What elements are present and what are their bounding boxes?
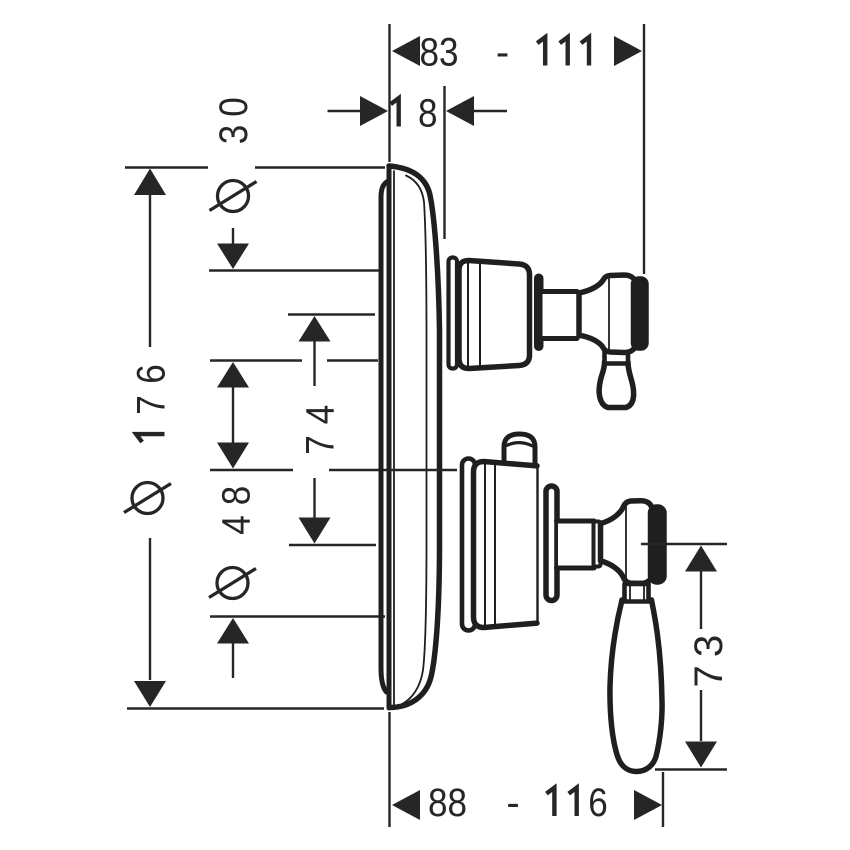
lower valve: skirt ring: [462, 459, 475, 631]
extension line V1 (wall/plate face, x=389.5) top: [388, 24, 390, 162]
upper valve: neck/hub interface line: [577, 293, 581, 337]
arrow O176 up: [134, 169, 166, 196]
arrow 83-111 left: [392, 36, 420, 66]
arrow O30 down at L2: [217, 244, 249, 270]
dim 73 lower tail: [700, 690, 702, 741]
svg-text:0: 0: [212, 97, 256, 117]
arrow 83-111 right: [614, 36, 642, 66]
plate back rim edge: [381, 182, 387, 692]
arrow 73 up: [685, 546, 717, 572]
reference line L4 y=470: [210, 469, 293, 471]
svg-text:7: 7: [130, 395, 174, 415]
arrow 18 left (points right at V1): [360, 96, 388, 126]
upper lever collar: [605, 349, 629, 364]
svg-text:8: 8: [418, 92, 438, 136]
dim 73 upper tail: [700, 570, 702, 629]
extension line V2 (x=444.5, 18mm offset): [443, 86, 445, 239]
lower valve: sleeve body fill: [474, 462, 540, 628]
svg-text:6: 6: [588, 781, 608, 825]
reference line L6 y=616.5: [210, 615, 385, 617]
dim 18 left tail: [328, 110, 363, 112]
svg-text:7: 7: [299, 435, 343, 455]
upper valve: right rim band (dark): [535, 275, 543, 351]
arrows: [134, 36, 717, 820]
lower valve: end cap (filled): [650, 506, 666, 583]
svg-text:3: 3: [687, 635, 731, 657]
dim O176 top tail: [149, 195, 151, 347]
arrow 88-116 left: [392, 790, 420, 820]
reference line L3' upper valve axis y=314.5: [288, 313, 375, 315]
reference line L4 over plate: [390, 469, 457, 471]
svg-text:6: 6: [130, 364, 174, 384]
lower valve: sleeve outline (open right): [474, 462, 538, 628]
reference line 73-bottom y=769: [655, 768, 727, 770]
dim O30 upper tail: [232, 228, 234, 244]
plate dome inner thin contour: [402, 176, 427, 705]
lower valve: hub inner thin line: [625, 505, 627, 580]
upper valve: sleeve body: [459, 261, 530, 369]
arrow 88-116 right: [634, 790, 662, 820]
svg-text:8: 8: [215, 486, 259, 506]
upper valve: end cap (filled): [633, 278, 648, 349]
arrow O176 down: [134, 681, 166, 707]
upper valve: spindle neck: [543, 294, 579, 336]
plate front rim line: [387, 166, 392, 708]
lower valve: top knob: [504, 434, 535, 464]
label 73 (rotated): [687, 635, 731, 688]
upper valve: handle hub with trumpet flare: [579, 275, 637, 353]
dim O30/O48 shared mid tail: [232, 386, 234, 444]
reference line L7 bottom of plate y=707.5: [127, 707, 384, 709]
arrow 73 down: [685, 742, 717, 768]
upper lever handle shaft: [599, 362, 634, 408]
arrow 74 up at L3': [299, 316, 331, 342]
label 18: [391, 98, 399, 126]
svg-text:88: 88: [428, 781, 467, 825]
label O176 (rotated): [124, 364, 174, 513]
extension line V3 (x=644, handle max reach): [643, 24, 645, 274]
lower valve: sleeve right thin edge: [536, 468, 538, 621]
arrow 18 right (points left at V2): [446, 96, 474, 126]
label 74 (rotated): [299, 405, 343, 455]
upper valve: hub inner thin line: [608, 279, 610, 349]
reference line L1 top of plate y=167: [125, 166, 208, 168]
arrow O48 up at L6: [217, 618, 249, 644]
reference line 73-top y=544 right side: [641, 543, 727, 545]
lower valve: handle hub with trumpet flare: [601, 501, 653, 584]
svg-text:-: -: [496, 31, 509, 75]
plate dome silhouette: [389, 166, 440, 708]
reference line L3 y=360.5: [210, 359, 302, 361]
lower valve: spindle neck: [558, 524, 596, 566]
arrow 74 down at L5: [299, 518, 331, 544]
label O30 (rotated): [210, 97, 257, 211]
lower lever collar: [625, 584, 649, 602]
arrow O48 down at L4: [217, 443, 249, 469]
upper valve: sleeve inner thin lines: [467, 262, 469, 367]
upper valve: skirt ring: [449, 258, 458, 369]
arrow O30 up at L3: [217, 362, 249, 388]
dim 74 lower tail: [313, 478, 315, 518]
extension line V1 bottom: [388, 712, 390, 827]
reference line L2 y=270.5: [209, 269, 380, 271]
dim 74 upper tail: [313, 340, 315, 386]
svg-text:4: 4: [215, 515, 259, 535]
73 reference line over hub: [641, 543, 667, 545]
lower valve: sleeve inner thin lines: [484, 463, 486, 626]
label O48 (rotated): [209, 486, 259, 599]
svg-text:4: 4: [299, 405, 343, 425]
dim O176 bottom tail: [149, 538, 151, 680]
svg-text:3: 3: [212, 125, 256, 145]
reference line L5 lower valve axis y=545: [289, 544, 376, 546]
svg-text:7: 7: [687, 665, 731, 687]
lower valve: knob top inner arc: [507, 443, 533, 446]
svg-text:-: -: [506, 781, 519, 825]
lower lever handle shaft: [610, 600, 662, 772]
extension line V4 (x=663, lower handle reach): [662, 772, 664, 827]
svg-text:83: 83: [420, 31, 459, 75]
dim 18 right tail: [472, 110, 507, 112]
plate rim inner thin line: [393, 171, 395, 705]
dim O48 lower tail: [232, 642, 234, 678]
lower valve: neck/hub interface ring: [594, 522, 601, 567]
lower valve: right rim band: [546, 486, 557, 601]
